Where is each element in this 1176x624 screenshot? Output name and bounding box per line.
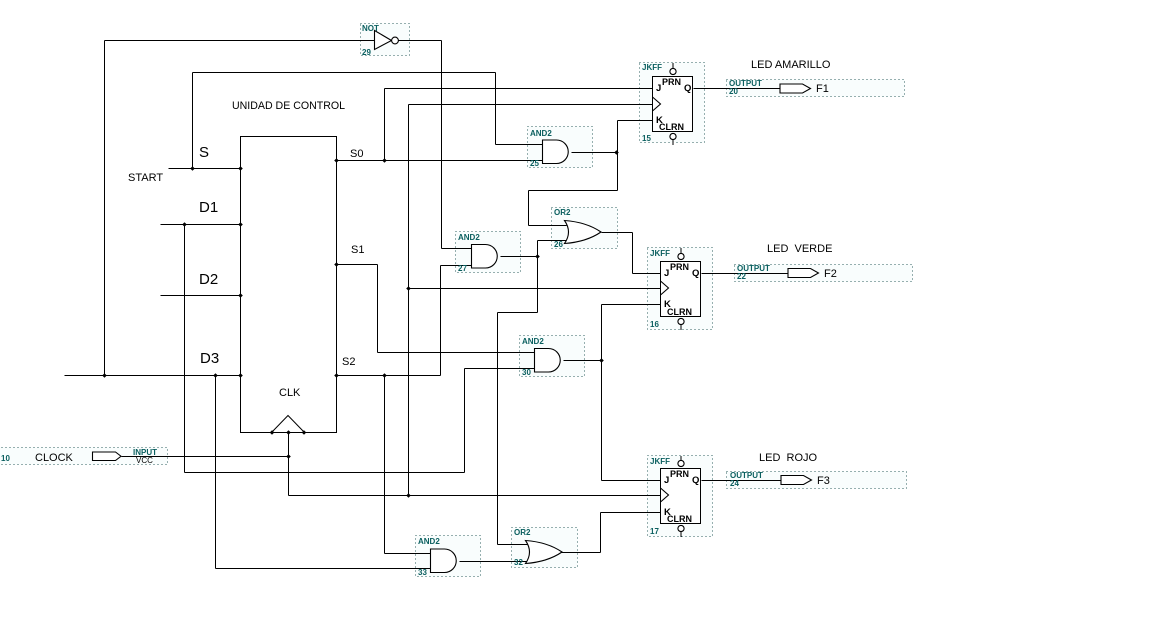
- junction clock riser to JKFF-16 clock: [406, 286, 411, 291]
- svg-text:CLRN: CLRN: [667, 307, 692, 317]
- svg-text:D2: D2: [199, 271, 218, 288]
- junction S0 at control unit edge: [334, 158, 339, 163]
- svg-text:Q: Q: [684, 83, 691, 94]
- svg-text:AND2: AND2: [458, 233, 480, 242]
- svg-text:CLOCK: CLOCK: [35, 452, 74, 464]
- svg-text:26: 26: [554, 240, 563, 249]
- svg-text:AND2: AND2: [530, 129, 552, 138]
- junction CLOCK wire at CLK riser: [286, 454, 291, 459]
- junction D1 wire branch: [182, 222, 187, 227]
- wire OR2-32 output to JKFF-17 K: [562, 513, 662, 553]
- selection box of AND2 gate 30: [520, 336, 585, 377]
- wire JKFF-17 Q to output F3: [702, 480, 782, 482]
- OR2 gate 32: [514, 528, 562, 567]
- junction AND2-27 output: [535, 254, 540, 259]
- selection box of NOT gate 29: [361, 24, 410, 56]
- svg-text:S: S: [199, 144, 209, 161]
- selection box of flip-flop 15: [640, 63, 705, 143]
- svg-text:17: 17: [650, 527, 659, 536]
- selection box of flip-flop 16: [648, 248, 713, 330]
- svg-text:20: 20: [729, 87, 738, 96]
- output pin F2: [737, 264, 837, 281]
- OR2 gate 26: [554, 208, 601, 249]
- junction S wire at control unit edge: [238, 166, 243, 171]
- AND2 gate 27: [458, 233, 497, 273]
- svg-text:OR2: OR2: [514, 528, 531, 537]
- svg-text:OR2: OR2: [554, 208, 571, 217]
- svg-text:32: 32: [514, 558, 523, 567]
- svg-text:START: START: [128, 172, 163, 184]
- junction CLK triangle base left: [270, 430, 275, 435]
- wire CLOCK net (to control unit CLK and the three flip-flop clocks): [122, 105, 662, 496]
- AND2 gate 25: [530, 129, 568, 168]
- svg-text:PRN: PRN: [670, 469, 689, 479]
- svg-text:CLRN: CLRN: [659, 122, 684, 132]
- wire NOT-29 output to AND2-27 input 1: [399, 41, 472, 249]
- svg-text:D3: D3: [200, 350, 219, 367]
- selection box of flip-flop 17: [648, 456, 713, 537]
- svg-text:PRN: PRN: [662, 77, 681, 87]
- CLK triangle on control unit bottom edge: [272, 416, 305, 433]
- svg-text:Q: Q: [692, 268, 699, 279]
- junction S1 at control unit edge: [334, 262, 339, 267]
- junction D1 wire at control unit edge: [238, 222, 243, 227]
- junction S2 to AND2-33 branch: [382, 373, 387, 378]
- wire AND2-30 output net (to JKFF-16 K and JKFF-17 J): [564, 305, 662, 481]
- svg-text:LED VERDE: LED VERDE: [767, 243, 832, 255]
- svg-text:24: 24: [730, 479, 739, 488]
- svg-text:27: 27: [458, 264, 467, 273]
- svg-text:LED AMARILLO: LED AMARILLO: [751, 59, 831, 71]
- wire net D1 (to AND2-30 input 2): [161, 225, 536, 473]
- svg-text:JKFF: JKFF: [642, 63, 662, 72]
- svg-text:AND2: AND2: [418, 537, 440, 546]
- input pin CLOCK: [1, 448, 157, 465]
- control unit block rectangle: [241, 137, 337, 433]
- selection box of AND2 gate 33: [416, 536, 481, 577]
- selection box of OR2 gate 26: [552, 208, 618, 249]
- junction D3 wire to NOT-29 branch: [102, 373, 107, 378]
- svg-text:F1: F1: [816, 83, 829, 95]
- wire JKFF-16 Q to output F2: [702, 273, 789, 275]
- wire AND2-25 output net (to JKFF-15 K and OR2-26 input 1): [529, 121, 654, 226]
- svg-text:AND2: AND2: [522, 337, 544, 346]
- svg-text:LED ROJO: LED ROJO: [759, 452, 818, 464]
- flip-flop JKFF 15: [642, 63, 693, 145]
- selection box of output pin F3: [727, 472, 907, 489]
- svg-text:CLRN: CLRN: [667, 514, 692, 524]
- flip-flop JKFF 16: [650, 248, 701, 330]
- wire net D2 (to control unit): [161, 295, 241, 297]
- wire AND2-27 output net (to OR2-26 input 2 and OR2-32 input 1): [498, 241, 567, 545]
- svg-text:F2: F2: [824, 268, 837, 280]
- svg-text:S2: S2: [342, 356, 355, 368]
- svg-text:J: J: [656, 83, 661, 94]
- svg-text:JKFF: JKFF: [650, 457, 670, 466]
- junction AND2-25 output: [614, 150, 619, 155]
- junction D2 wire at control unit edge: [238, 293, 243, 298]
- svg-text:S1: S1: [351, 244, 364, 256]
- wire AND2-33 output to OR2-32 input 2: [460, 561, 528, 563]
- AND2 gate 30: [522, 337, 560, 377]
- selection box of output pin F2: [735, 265, 913, 282]
- svg-text:33: 33: [418, 568, 427, 577]
- selection box of input pin CLOCK: [0, 448, 168, 465]
- NOT gate 29: [362, 24, 398, 57]
- output pin F1: [729, 79, 829, 96]
- wire OR2-26 output to JKFF-16 J: [602, 233, 662, 274]
- svg-text:UNIDAD DE CONTROL: UNIDAD DE CONTROL: [232, 100, 345, 112]
- junction clock riser at JKFF-17 clock wire: [406, 493, 411, 498]
- junction S0 to JKFF-15 J branch: [382, 158, 387, 163]
- junction S2 at control unit edge: [334, 373, 339, 378]
- wire net S0 (to AND2-25 and JKFF-15 J): [337, 89, 654, 161]
- junction CLK triangle base right: [302, 430, 307, 435]
- flip-flop JKFF 17: [650, 456, 701, 537]
- junction D3 wire at control unit edge: [238, 373, 243, 378]
- selection box of OR2 gate 32: [512, 528, 578, 568]
- svg-text:16: 16: [650, 320, 659, 329]
- svg-text:J: J: [664, 268, 669, 279]
- svg-text:25: 25: [530, 159, 539, 168]
- junction D3 wire to AND2-33 branch: [213, 373, 218, 378]
- selection box of AND2 gate 25: [528, 127, 593, 168]
- svg-text:F3: F3: [817, 475, 830, 487]
- svg-text:VCC: VCC: [136, 456, 153, 465]
- selection box of output pin F1: [727, 80, 905, 97]
- wire net S1 (to AND2-30 input 1): [337, 265, 536, 353]
- wire net S (START input to control unit and AND2-25): [169, 73, 543, 169]
- output pin F3: [730, 471, 830, 488]
- svg-text:J: J: [664, 475, 669, 486]
- junction S wire to NOT-branch riser: [190, 166, 195, 171]
- wire net D3 (to control unit, NOT-29 and AND2-33 input 2): [65, 41, 431, 569]
- svg-text:PRN: PRN: [670, 262, 689, 272]
- selection box of AND2 gate 27: [456, 232, 521, 273]
- junction CLK triangle base centre: [286, 430, 291, 435]
- svg-text:CLK: CLK: [279, 387, 301, 399]
- svg-text:D1: D1: [199, 199, 218, 216]
- svg-text:JKFF: JKFF: [650, 249, 670, 258]
- wire JKFF-15 Q to output F1: [694, 88, 781, 90]
- svg-text:29: 29: [362, 48, 371, 57]
- svg-text:10: 10: [1, 454, 10, 463]
- AND2 gate 33: [418, 537, 456, 577]
- junction AND2-30 output: [599, 358, 604, 363]
- wire net S2 (to AND2-27 input 2 and AND2-33 input 1): [337, 266, 472, 554]
- svg-text:15: 15: [642, 134, 651, 143]
- svg-text:30: 30: [522, 368, 531, 377]
- svg-text:Q: Q: [692, 475, 699, 486]
- svg-text:S0: S0: [350, 148, 363, 160]
- svg-text:22: 22: [737, 272, 746, 281]
